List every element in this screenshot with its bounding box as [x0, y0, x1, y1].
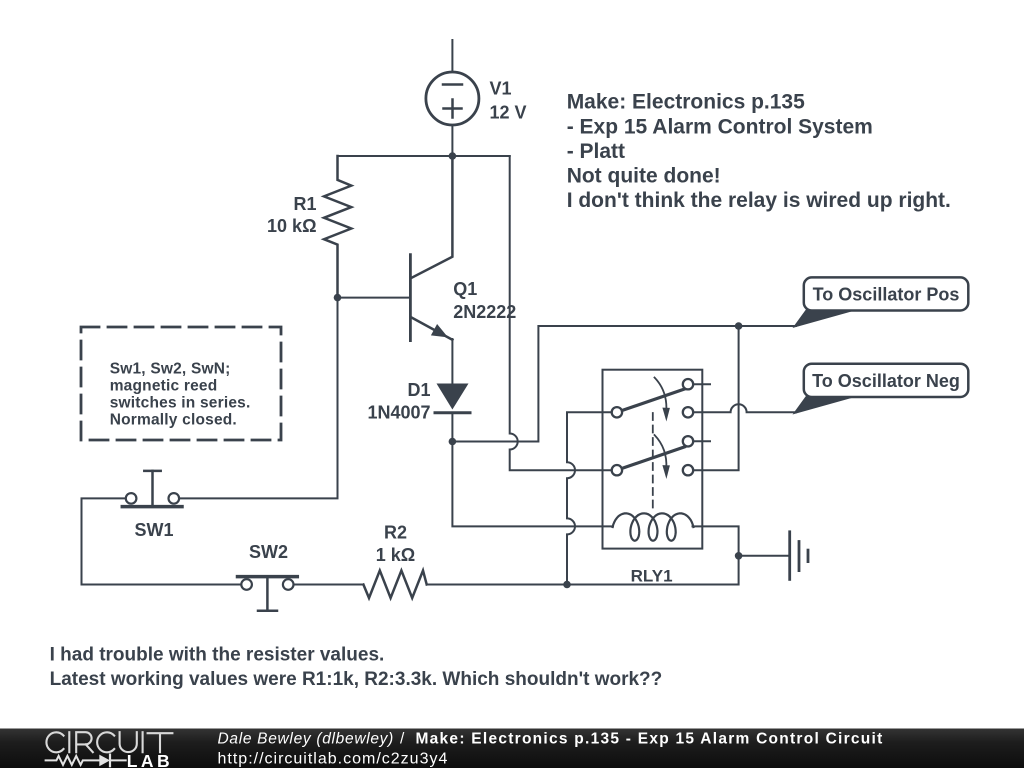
wire relay pole 1 to ground rail with hops [567, 412, 612, 584]
label V1 value [490, 79, 527, 123]
svg-text:- Exp 15 Alarm Control System: - Exp 15 Alarm Control System [567, 115, 873, 138]
note text SW series [110, 360, 251, 428]
svg-text:D1: D1 [407, 380, 430, 400]
callout To Oscillator Pos [793, 277, 969, 328]
label D1 value [367, 380, 430, 422]
wire SW2 to R2 [294, 584, 364, 586]
relay RLY1 arrow 1 [655, 378, 670, 422]
svg-text:magnetic reed: magnetic reed [110, 377, 218, 394]
wire ground node down to bottom rail [427, 556, 739, 585]
node junction R1 bottom / base [334, 294, 342, 302]
voltage source V1 [426, 72, 479, 125]
callout To Oscillator Neg [793, 364, 969, 415]
logo circuitlab wordmark [46, 732, 172, 752]
svg-text:Latest working values were R1:: Latest working values were R1:1k, R2:3.3… [50, 669, 663, 690]
wire SW1 to SW2 [82, 498, 242, 584]
svg-text:RLY1: RLY1 [631, 567, 673, 586]
wire base [338, 297, 410, 299]
note box dashed [81, 327, 281, 440]
label R2 value [376, 522, 415, 565]
annotation bottom [50, 645, 663, 690]
svg-text:Q1: Q1 [453, 279, 477, 299]
svg-text:V1: V1 [490, 79, 512, 99]
svg-text:SW1: SW1 [134, 520, 173, 540]
relay RLY1 dashed link [652, 413, 654, 509]
svg-text:1N4007: 1N4007 [367, 402, 430, 422]
svg-text:LAB: LAB [127, 751, 173, 768]
svg-text:Make: Electronics p.135 - Exp: Make: Electronics p.135 - Exp 15 Alarm C… [416, 731, 884, 748]
svg-text:I had trouble with the resiste: I had trouble with the resister values. [50, 645, 385, 666]
logo resistor-diode squiggle [46, 755, 126, 767]
label R1 value [267, 194, 316, 236]
svg-text:R2: R2 [384, 522, 407, 542]
resistor R1 [324, 156, 351, 298]
svg-text:http://circuitlab.com/c2zu3y4: http://circuitlab.com/c2zu3y4 [218, 750, 449, 767]
svg-text:SW2: SW2 [249, 542, 288, 562]
resistor R2 [363, 571, 426, 599]
relay RLY1 arrow 2 [655, 435, 670, 479]
wire R1 junction down to SW1 [179, 298, 337, 499]
relay RLY1 blade 1 [622, 389, 685, 411]
svg-text:switches in series.: switches in series. [110, 395, 251, 412]
wire relay throw 2 to oscillator neg with hop [693, 404, 796, 412]
relay RLY1 pin circles [612, 379, 694, 475]
svg-text:10 kΩ: 10 kΩ [267, 216, 316, 236]
relay RLY1 box [603, 370, 703, 549]
svg-text:To Oscillator Pos: To Oscillator Pos [813, 285, 960, 305]
svg-text:Dale Bewley (dlbewley): Dale Bewley (dlbewley) [218, 731, 395, 748]
svg-text:1 kΩ: 1 kΩ [376, 545, 415, 565]
wire V+ rail down with hop to relay pole 2 [510, 156, 612, 470]
relay RLY1 pin stubs [693, 383, 710, 385]
relay RLY1 blade 2 [622, 447, 685, 469]
wire junction to relay coil left [452, 442, 613, 527]
svg-text:/: / [400, 731, 405, 748]
wire diode to junction [451, 413, 453, 442]
svg-text:- Platt: - Platt [567, 140, 625, 163]
switch SW1 [122, 471, 182, 507]
wire junction to oscillator-pos rail [452, 326, 796, 442]
wire top rail [338, 155, 510, 157]
node junction diode [449, 438, 457, 446]
wire V1 bottom to top rail [451, 125, 453, 156]
svg-text:12 V: 12 V [490, 103, 527, 123]
svg-text:2N2222: 2N2222 [453, 302, 516, 322]
node junction top rail [449, 152, 457, 160]
svg-text:To Oscillator Neg: To Oscillator Neg [812, 371, 960, 391]
diode D1 [435, 384, 470, 413]
svg-text:R1: R1 [293, 194, 316, 214]
transistor Q1 [410, 156, 452, 341]
relay RLY1 coil [613, 513, 694, 540]
node junction pos rail [735, 322, 743, 330]
svg-text:I don't think the relay is wir: I don't think the relay is wired up righ… [567, 189, 951, 212]
svg-text:Make: Electronics p.135: Make: Electronics p.135 [567, 91, 805, 114]
wire pos junction down to relay throw 4 [693, 326, 738, 470]
label Q1 value [453, 279, 516, 322]
wire V1 top stub [451, 40, 453, 72]
svg-text:Normally closed.: Normally closed. [110, 412, 237, 429]
svg-text:Sw1, Sw2, SwN;: Sw1, Sw2, SwN; [110, 360, 231, 377]
svg-text:Not quite done!: Not quite done! [567, 165, 721, 188]
annotation top [567, 91, 951, 213]
ground symbol [790, 532, 808, 580]
wire relay coil right to ground node [693, 526, 739, 555]
switch SW2 [238, 577, 298, 611]
node junction ground [735, 552, 743, 560]
wire emitter to diode [451, 339, 453, 384]
node junction bottom rail [563, 581, 571, 589]
wire ground node to ground symbol [739, 555, 788, 557]
